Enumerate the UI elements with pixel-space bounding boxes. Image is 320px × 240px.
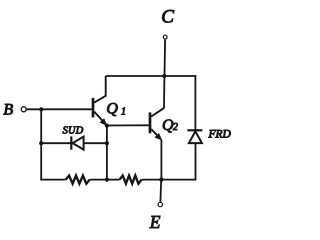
junction base wire / left branch bbox=[39, 107, 43, 111]
wire middle vertical bbox=[106, 126, 108, 181]
terminal E bbox=[158, 202, 162, 206]
svg-text:Q: Q bbox=[106, 100, 118, 117]
wire top bus bbox=[106, 75, 197, 77]
wire Q2 emitter vertical bbox=[160, 140, 162, 181]
terminal B bbox=[21, 107, 26, 112]
resistor R1 bbox=[66, 176, 90, 184]
svg-text:E: E bbox=[149, 212, 161, 232]
wire right vertical upper bbox=[194, 75, 196, 130]
wire SUD row left bbox=[41, 142, 70, 144]
junction Q1 emitter node bbox=[105, 124, 109, 128]
svg-text:1: 1 bbox=[121, 106, 126, 117]
svg-text:B: B bbox=[3, 101, 13, 118]
junction SUD row / middle vertical bbox=[105, 141, 109, 145]
wire Q1 emitter to Q2 base bbox=[106, 124, 149, 126]
wire bottom bus middle bbox=[90, 179, 120, 181]
wire left vertical bbox=[40, 109, 42, 180]
wire top bus to Q2 collector bbox=[163, 76, 165, 108]
svg-text:SUD: SUD bbox=[63, 125, 84, 136]
transistor Q1 bbox=[93, 76, 107, 125]
wire right vertical lower bbox=[195, 143, 197, 180]
wire bottom bus right bbox=[142, 179, 197, 181]
wire bottom bus left bbox=[40, 179, 65, 181]
diode SUD bbox=[71, 136, 83, 149]
resistor R2 bbox=[120, 176, 142, 184]
svg-text:2: 2 bbox=[173, 122, 178, 133]
wire B to Q1 base bbox=[26, 108, 91, 110]
junction emitter / bottom bus bbox=[159, 177, 163, 181]
wire E stub bbox=[159, 180, 162, 203]
junction middle vertical / bottom bus bbox=[105, 178, 109, 182]
transistor Q2 bbox=[150, 108, 164, 140]
diode FRD bbox=[187, 130, 202, 143]
svg-text:C: C bbox=[161, 7, 174, 28]
wire SUD row right bbox=[84, 142, 107, 144]
terminal C bbox=[163, 35, 167, 39]
wire C to top bus bbox=[164, 39, 167, 76]
junction top bus / C line bbox=[162, 74, 166, 78]
svg-text:FRD: FRD bbox=[208, 128, 232, 140]
junction left vertical / SUD row bbox=[39, 141, 43, 145]
